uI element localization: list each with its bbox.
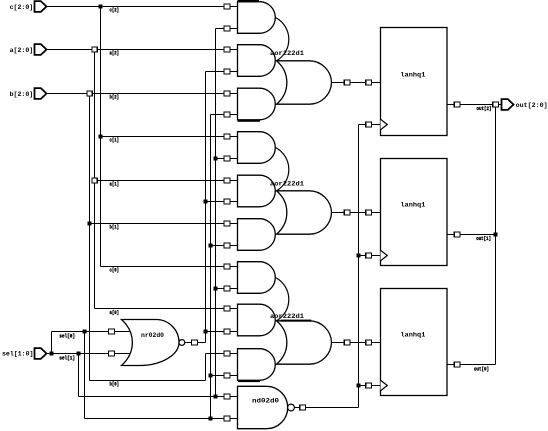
wire a vertical bus — [94, 50, 96, 309]
wire and-input row 15 — [206, 331, 238, 333]
junction enable latch2 — [357, 254, 361, 258]
pin and-input row 1 — [224, 26, 230, 31]
latch U1 enable wedge — [381, 119, 388, 130]
nor-gate output bubble — [179, 340, 185, 346]
nor-gate nr02d0 body — [122, 320, 180, 366]
wire c vertical bus — [100, 7, 102, 267]
svg-text:c[2:0]: c[2:0] — [10, 4, 34, 11]
and-gate A2 (aor222d1 group 1) — [238, 45, 276, 77]
pin latch2 enable — [366, 253, 372, 258]
or-gate OR3 (aor222d1 group 3) — [277, 321, 332, 364]
junction nor-out line — [204, 200, 208, 204]
and-gate A8 (aor222d1 group 3) — [238, 304, 276, 336]
pin latch3 data input — [366, 340, 372, 345]
nand-gate nd02d0 body — [238, 386, 288, 428]
svg-text:b[2:0]: b[2:0] — [10, 91, 34, 98]
wire OR1 output — [332, 82, 381, 84]
instance label bar top — [238, 0, 260, 2]
and-gate A1 (aor222d1 group 1) — [238, 2, 276, 34]
pin and-input row 13 — [224, 286, 230, 291]
pin latch U2 output — [454, 232, 460, 237]
wire b bottom run — [90, 380, 206, 382]
pin nor input A — [109, 329, 115, 334]
and-gate A4 (aor222d1 group 2) — [238, 132, 276, 164]
svg-text:a[2:0]: a[2:0] — [10, 47, 34, 54]
latch U2 enable wedge — [381, 250, 388, 261]
and-gate A5 (aor222d1 group 2) — [238, 175, 276, 207]
pin OR3 output — [344, 340, 350, 345]
pin nand input B — [224, 416, 230, 421]
wire and-input row 7 — [216, 158, 238, 160]
pin and-input row 15 — [224, 329, 230, 334]
wire nand output — [294, 407, 358, 409]
pin latch2 data input — [366, 210, 372, 215]
wire OR2 output — [332, 212, 381, 214]
latch U2 lanhq1 body — [381, 159, 448, 266]
wire and-input row 17 — [211, 375, 238, 377]
pin OR2 output — [344, 210, 350, 215]
wire latch U2 output — [447, 234, 496, 236]
latch U3 lanhq1 body — [381, 289, 448, 396]
svg-text:nd02d0: nd02d0 — [252, 397, 279, 405]
svg-text:sel[1]: sel[1] — [59, 355, 75, 361]
latch U1 lanhq1 body — [381, 28, 448, 136]
svg-text:sel[0]: sel[0] — [59, 334, 75, 340]
wire output bus vertical — [495, 105, 497, 365]
pin latch3 enable — [366, 383, 372, 388]
or-gate OR2 (aor222d1 group 2) — [277, 191, 332, 234]
wire nor output — [185, 342, 206, 344]
svg-text:c[0]: c[0] — [110, 268, 120, 274]
and-gate A6 (aor222d1 group 2) — [238, 219, 276, 251]
input port sel(1:0) — [35, 348, 47, 359]
wire sel(0) bottom run — [85, 418, 238, 420]
wire nor output line (x=205.5) — [205, 72, 207, 343]
svg-text:b[2]: b[2] — [110, 95, 120, 101]
wire b(2:0) row — [47, 93, 238, 95]
wire sel(1) bottom run — [79, 396, 238, 398]
nand-gate output bubble — [288, 404, 295, 411]
pin nand output — [300, 405, 306, 410]
or-gate OR1 (aor222d1 group 1) — [277, 61, 332, 104]
wire and-input row 13 — [216, 288, 238, 290]
pin and-input row 7 — [224, 156, 230, 161]
instance label bar low — [238, 380, 260, 382]
latch U3 enable wedge — [381, 380, 388, 391]
wire enable to latch2 — [359, 255, 381, 257]
svg-text:c[1]: c[1] — [110, 138, 120, 144]
wire latch U1 output — [447, 104, 502, 106]
wire a(2:0) row — [47, 49, 238, 51]
svg-text:sel[1:0]: sel[1:0] — [2, 350, 34, 357]
wire and5 a(1) row — [95, 180, 238, 182]
wire and9 b(0) row — [206, 353, 238, 355]
pin latch U1 output — [454, 102, 460, 107]
pin and-input row 9 — [224, 199, 230, 204]
and-gate A7 (aor222d1 group 3) — [238, 262, 276, 294]
wire and-input row 5 — [211, 114, 238, 116]
wire sel port stub — [47, 353, 52, 355]
svg-text:lanhq1: lanhq1 — [400, 331, 425, 339]
junction c tap bit1 — [99, 135, 103, 139]
pin nor output — [192, 340, 198, 345]
pin and-input row 14 — [224, 306, 230, 311]
output port out(2:0) — [502, 99, 514, 110]
svg-text:out[2]: out[2] — [477, 106, 492, 112]
pin output port — [493, 102, 499, 107]
pin and-input row 10 — [224, 221, 230, 226]
junction sel(0) tap — [83, 330, 87, 334]
wire latch U3 output — [447, 364, 496, 366]
svg-text:a[2]: a[2] — [110, 51, 120, 57]
junction enable latch3 — [357, 384, 361, 388]
instance label bar on OR3 edge — [281, 320, 312, 322]
svg-text:nr02d0: nr02d0 — [141, 332, 164, 339]
wire c(2:0) row — [47, 6, 238, 8]
wire select line s0 (x=215.5) — [215, 29, 217, 397]
pin and-input row 6 — [224, 134, 230, 139]
wire and8 a(0) row — [95, 308, 238, 310]
wire b riser — [205, 354, 207, 381]
junction select s0 — [214, 287, 218, 291]
svg-text:a[0]: a[0] — [110, 310, 120, 316]
wire sel(1) row — [52, 353, 132, 355]
wire OR3 output — [332, 342, 381, 344]
junction sel(1) tap — [77, 352, 81, 356]
svg-text:out[0]: out[0] — [474, 367, 489, 373]
svg-text:a[1]: a[1] — [110, 182, 120, 188]
junction select s1 — [209, 374, 213, 378]
junction select s1 — [209, 244, 213, 248]
wire and-input row 9 — [206, 201, 238, 203]
wire sel(0) row — [52, 331, 132, 333]
pin and-input row 2 — [224, 47, 230, 52]
svg-text:b[1]: b[1] — [110, 225, 120, 231]
tap a bit1 — [92, 178, 97, 183]
svg-text:aor222d1: aor222d1 — [270, 181, 304, 189]
wire sel(1) drop — [78, 354, 80, 397]
pin and-input row 4 — [224, 91, 230, 96]
pin and-input row 11 — [224, 243, 230, 248]
pin and-input row 12 — [224, 264, 230, 269]
pin and-input row 8 — [224, 178, 230, 183]
wire and7 c(0) row — [101, 266, 238, 268]
svg-text:lanhq1: lanhq1 — [400, 201, 425, 209]
svg-text:b[0]: b[0] — [110, 382, 120, 388]
pin OR1 output — [344, 80, 350, 85]
junction select s1 — [209, 417, 213, 421]
pin nor input B — [109, 351, 115, 356]
instance label bar mid — [238, 120, 261, 122]
wire enable to latch3 — [359, 385, 381, 387]
pin and-input row 3 — [224, 69, 230, 74]
junction sel split — [50, 352, 54, 356]
junction output bus latch2 — [494, 233, 498, 237]
wire sel(0) drop — [84, 332, 86, 419]
svg-text:lanhq1: lanhq1 — [400, 71, 425, 79]
pin and-input row 0 — [224, 4, 230, 9]
wire arc A1 to OR1 — [276, 18, 289, 61]
svg-text:aor222d1: aor222d1 — [270, 50, 304, 58]
and-gate A3 (aor222d1 group 1) — [238, 88, 276, 120]
tap b — [87, 91, 92, 96]
svg-text:c[2]: c[2] — [110, 8, 120, 14]
wire b vertical bus — [89, 94, 91, 381]
junction nor-out line — [204, 330, 208, 334]
wire arc A4 to OR2 — [276, 148, 289, 191]
wire and-input row 3 — [206, 71, 238, 73]
wire and-input row 1 — [216, 28, 238, 30]
junction select s0 — [214, 395, 218, 399]
svg-text:out[2:0]: out[2:0] — [516, 102, 548, 109]
pin and-input row 5 — [224, 112, 230, 117]
wire and4 c(1) row — [101, 136, 238, 138]
wire sel(0) riser — [51, 332, 53, 354]
junction c tap — [99, 5, 103, 9]
pin nand input A — [224, 394, 230, 399]
pin latch1 enable — [366, 122, 372, 127]
pin latch1 data input — [366, 80, 372, 85]
wire enable to latch1 — [359, 124, 381, 126]
wire select line s1 (x=210.5) — [210, 115, 212, 419]
tap a — [92, 47, 97, 52]
and-gate A9 (aor222d1 group 3) — [238, 349, 276, 381]
input port b[2:0] — [35, 88, 47, 99]
input port a[2:0] — [35, 44, 47, 55]
wire and6 b(1) row — [90, 223, 238, 225]
wire and-input row 11 — [211, 245, 238, 247]
pin and-input row 16 — [224, 351, 230, 356]
wire arc A7 to OR3 — [276, 278, 289, 321]
wire enable vertical — [358, 125, 360, 408]
junction select s0 — [214, 157, 218, 161]
pin latch U3 output — [454, 362, 460, 367]
pin and-input row 17 — [224, 373, 230, 378]
junction b tap bit1 — [88, 222, 92, 226]
input port c[2:0] — [35, 1, 47, 12]
svg-text:out[1]: out[1] — [476, 236, 491, 242]
